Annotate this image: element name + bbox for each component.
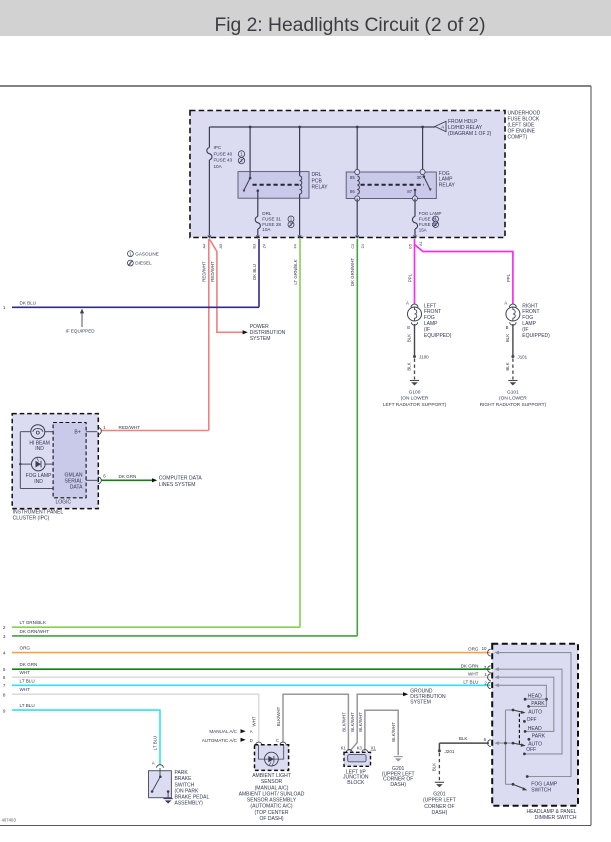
IPC pin 6 connector	[86, 479, 97, 481]
svg-text:10A: 10A	[214, 164, 223, 169]
svg-text:87: 87	[407, 189, 412, 194]
svg-text:MANUAL A/C: MANUAL A/C	[209, 729, 237, 734]
fuse F26/F25 (FOG LAMP)	[414, 190, 416, 196]
wire LT BLU (headlamp sw)	[12, 684, 491, 686]
svg-text:K1: K1	[341, 746, 347, 751]
svg-text:SYSTEM: SYSTEM	[250, 336, 271, 342]
svg-text:DASH): DASH)	[432, 810, 448, 816]
fog relay switch (pins 30/87)	[422, 127, 424, 174]
wire DK BLU	[258, 239, 260, 307]
contact dots and position labels	[524, 698, 527, 701]
svg-text:BLK/WHT: BLK/WHT	[350, 712, 355, 732]
indicator lamp: HI BEAM IND	[20, 431, 31, 433]
header title bar	[0, 0, 611, 36]
svg-text:RED/WHT: RED/WHT	[202, 261, 207, 282]
svg-text:PARK: PARK	[532, 734, 546, 740]
wire ORG	[12, 652, 491, 654]
svg-text:1: 1	[3, 305, 6, 310]
svg-text:GASOLINE: GASOLINE	[135, 251, 159, 256]
svg-text:WHT: WHT	[20, 670, 31, 675]
svg-text:RED/WHT: RED/WHT	[210, 261, 215, 282]
fog relay coil link (dashed)	[361, 184, 425, 186]
svg-text:9: 9	[3, 708, 6, 713]
wire RED/WHT #2 (to power distribution)	[209, 239, 242, 332]
wire RED/WHT #1 (to IPC)	[208, 239, 210, 431]
fuse block bottom exit arrows	[207, 235, 211, 238]
svg-text:AMBIENT LIGHT: AMBIENT LIGHT	[252, 773, 291, 779]
left I/P junction block box	[346, 750, 352, 753]
svg-text:SWITCH: SWITCH	[175, 782, 195, 788]
svg-text:1: 1	[484, 672, 487, 677]
svg-text:FUSE 40: FUSE 40	[214, 151, 233, 156]
svg-text:DASH): DASH)	[390, 782, 406, 788]
svg-text:EQUIPPED): EQUIPPED)	[424, 333, 452, 339]
svg-text:G201: G201	[433, 792, 446, 798]
svg-text:5: 5	[3, 667, 6, 672]
svg-text:(ON PARK: (ON PARK	[175, 788, 199, 794]
svg-text:SYSTEM: SYSTEM	[410, 700, 431, 706]
wire WHT (headlamp sw)	[12, 676, 491, 678]
svg-text:B: B	[506, 325, 509, 330]
svg-text:RELAY: RELAY	[312, 184, 329, 190]
svg-text:FOG LAMP: FOG LAMP	[531, 782, 558, 788]
svg-text:407403: 407403	[2, 818, 17, 823]
svg-text:DRL: DRL	[262, 211, 272, 216]
svg-text:AMBIENT LIGHT/ SUNLOAD: AMBIENT LIGHT/ SUNLOAD	[239, 791, 305, 797]
svg-text:FUSE 31: FUSE 31	[262, 216, 281, 221]
svg-text:86: 86	[350, 189, 355, 194]
switch internal wire from pin 6 (BLK)	[496, 742, 513, 744]
svg-text:CORNER OF: CORNER OF	[424, 804, 454, 810]
DRL relay coil link (dashed)	[253, 184, 300, 186]
svg-text:PPL: PPL	[506, 273, 511, 282]
svg-text:4: 4	[3, 650, 6, 655]
svg-text:BLK/WHT: BLK/WHT	[276, 706, 281, 726]
relay U1: DRL PCB RELAY (box)	[238, 172, 309, 199]
svg-text:LT BLU: LT BLU	[20, 703, 35, 708]
svg-text:LINES SYSTEM: LINES SYSTEM	[159, 482, 196, 488]
svg-text:10A: 10A	[262, 227, 271, 232]
svg-text:Fig 2: Headlights Circuit (2 o: Fig 2: Headlights Circuit (2 of 2)	[214, 15, 485, 36]
svg-text:ASSEMBLY): ASSEMBLY)	[175, 801, 204, 807]
svg-text:C2: C2	[351, 244, 355, 249]
svg-text:85: 85	[350, 175, 355, 180]
DRL relay coil	[299, 127, 301, 176]
svg-text:6: 6	[3, 675, 6, 680]
svg-text:LT BLU: LT BLU	[20, 678, 35, 683]
svg-text:DK BLU: DK BLU	[252, 264, 257, 280]
svg-text:WHT: WHT	[468, 672, 479, 677]
svg-text:BLK/WHT: BLK/WHT	[341, 712, 346, 732]
svg-text:PARK: PARK	[175, 770, 189, 776]
svg-text:LT BLU: LT BLU	[463, 680, 478, 685]
svg-text:AUTO: AUTO	[528, 709, 542, 715]
svg-text:SENSOR ASSEMBLY: SENSOR ASSEMBLY	[247, 798, 297, 804]
wire BLK below RIGHT lamp	[512, 324, 514, 357]
svg-text:A: A	[152, 761, 155, 766]
node J201	[438, 749, 441, 752]
svg-text:RED/WHT: RED/WHT	[119, 425, 141, 430]
wire BLK (headlamp switch ground)	[439, 742, 489, 744]
svg-text:DISTRIBUTION: DISTRIBUTION	[250, 330, 286, 336]
svg-text:A5: A5	[219, 244, 223, 249]
svg-text:30: 30	[417, 175, 422, 180]
logic inner box	[53, 423, 86, 498]
svg-text:IND: IND	[34, 479, 43, 485]
svg-text:10: 10	[482, 646, 487, 651]
node: bus junctions	[249, 126, 252, 129]
svg-text:DK GRN/WHT: DK GRN/WHT	[20, 629, 50, 634]
svg-text:DK GRN: DK GRN	[461, 664, 479, 669]
wire DK GRN	[12, 668, 491, 670]
svg-text:ORG: ORG	[20, 646, 31, 651]
IF EQUIPPED note	[81, 313, 83, 328]
svg-text:OFF: OFF	[526, 747, 536, 753]
svg-text:BRAKE: BRAKE	[175, 776, 193, 782]
arrow: COMPUTER DATA LINES SYSTEM	[152, 478, 157, 482]
switch internal wire from pin 1 (WHT) to HEAD	[496, 677, 554, 731]
svg-text:DK GRN: DK GRN	[20, 662, 38, 667]
wire: IPC internal left leg	[19, 432, 21, 489]
svg-text:LEFT RADIATOR SUPPORT): LEFT RADIATOR SUPPORT)	[383, 402, 447, 408]
sensor internal circuit	[259, 745, 284, 759]
svg-text:1: 1	[129, 251, 132, 256]
svg-text:C: C	[276, 738, 279, 743]
wire WHT (ambient sensor)	[12, 694, 259, 742]
svg-text:IF EQUIPPED: IF EQUIPPED	[66, 329, 96, 334]
svg-text:G101: G101	[507, 389, 519, 395]
svg-text:AUTOMATIC A/C: AUTOMATIC A/C	[202, 738, 238, 743]
svg-text:8: 8	[3, 692, 6, 697]
svg-text:G5: G5	[408, 244, 412, 249]
svg-text:J100: J100	[419, 354, 429, 359]
wire BLK/WHT (X1 to G201)	[365, 710, 398, 755]
svg-text:B3: B3	[253, 244, 257, 249]
svg-text:(UPPER LEFT: (UPPER LEFT	[423, 798, 456, 804]
svg-text:BLK: BLK	[407, 362, 412, 370]
svg-text:J201: J201	[445, 749, 455, 754]
instrument panel cluster IPC (dashed box)	[12, 414, 98, 509]
svg-text:F4: F4	[294, 244, 298, 248]
svg-text:B: B	[407, 325, 410, 330]
svg-text:IND: IND	[35, 446, 44, 452]
svg-text:A: A	[406, 300, 409, 305]
svg-text:A: A	[250, 729, 253, 734]
IPC pin 1 connector	[86, 431, 97, 433]
svg-text:EQUIPPED): EQUIPPED)	[522, 333, 550, 339]
wire: main feed bus inside fuse block	[209, 126, 435, 128]
svg-text:A: A	[441, 125, 444, 130]
svg-text:BLK: BLK	[407, 334, 412, 342]
svg-text:SENSOR: SENSOR	[261, 779, 283, 785]
svg-text:6: 6	[484, 737, 487, 742]
underhood fuse block (dashed box)	[190, 111, 505, 238]
svg-text:(ON LOWER: (ON LOWER	[499, 396, 527, 402]
wire PPL (fog lamp feed)	[414, 239, 416, 304]
svg-text:ORG: ORG	[468, 646, 479, 651]
svg-text:RELAY: RELAY	[439, 182, 456, 188]
node J100	[413, 355, 416, 358]
ground G201 (junction block)	[394, 756, 403, 758]
svg-text:LT BLU: LT BLU	[152, 736, 157, 750]
svg-text:COMPT): COMPT)	[508, 135, 528, 141]
svg-text:DK GRN: DK GRN	[119, 474, 137, 479]
svg-text:IPC: IPC	[214, 145, 222, 150]
svg-text:BLK: BLK	[431, 763, 436, 771]
svg-text:FUSE 28: FUSE 28	[262, 222, 281, 227]
fog relay coil (pins 85/86)	[356, 127, 358, 174]
svg-text:(MANUAL A/C): (MANUAL A/C)	[255, 785, 289, 791]
indicator LED: FOG LAMP IND	[45, 463, 53, 465]
svg-text:WHT: WHT	[252, 716, 257, 726]
svg-text:1: 1	[103, 425, 106, 430]
arrow: POWER DISTRIBUTION SYSTEM	[243, 330, 248, 334]
legend: gasoline / diesel	[127, 251, 133, 257]
node J101	[511, 355, 514, 358]
svg-text:D: D	[250, 738, 253, 743]
svg-text:BLK: BLK	[459, 736, 469, 741]
svg-text:BLK/WHT: BLK/WHT	[358, 712, 363, 732]
svg-text:Z4: Z4	[361, 244, 365, 248]
park brake switch contacts	[159, 768, 161, 777]
switch internal wire from pin 3 (DK GRN) to OFF	[496, 669, 562, 754]
svg-text:G100: G100	[409, 389, 421, 395]
svg-text:BLK: BLK	[505, 362, 510, 370]
svg-text:RIGHT RADIATOR SUPPORT): RIGHT RADIATOR SUPPORT)	[480, 402, 547, 408]
svg-text:15A: 15A	[419, 227, 427, 232]
headlamp and panel dimmer switch (dashed box)	[492, 644, 578, 806]
svg-text:A1: A1	[419, 241, 423, 246]
svg-text:FOG LAMP: FOG LAMP	[419, 211, 442, 216]
svg-text:FUSE 43: FUSE 43	[214, 158, 233, 163]
fog lamp switch	[526, 775, 529, 778]
svg-text:DK BLU: DK BLU	[20, 300, 37, 305]
svg-text:DIMMER SWITCH: DIMMER SWITCH	[535, 815, 577, 821]
wiper 2 (AUTO)	[512, 742, 515, 745]
svg-text:J101: J101	[518, 354, 528, 359]
wire BLK dashed to G100	[414, 359, 416, 380]
svg-text:BRAKE PEDAL: BRAKE PEDAL	[175, 795, 210, 801]
svg-text:DK GRN/WHT: DK GRN/WHT	[350, 258, 355, 287]
svg-text:(DIAGRAM 1 OF 2): (DIAGRAM 1 OF 2)	[448, 131, 492, 137]
svg-text:LOGIC: LOGIC	[56, 499, 72, 505]
svg-text:BLK/WHT: BLK/WHT	[391, 722, 396, 742]
wire BLK below LEFT lamp	[414, 324, 416, 357]
svg-text:A: A	[504, 300, 507, 305]
svg-text:OFF: OFF	[527, 717, 537, 723]
svg-text:WHT: WHT	[20, 687, 31, 692]
svg-text:3: 3	[3, 634, 6, 639]
lamp: LEFT front fog lamp	[411, 304, 418, 307]
svg-text:DIESEL: DIESEL	[135, 261, 152, 266]
lamp: RIGHT front fog lamp	[510, 304, 517, 307]
svg-text:(AUTOMATIC A/C): (AUTOMATIC A/C)	[250, 804, 292, 810]
wire DK GRN/WHT	[356, 239, 358, 636]
svg-text:A4: A4	[202, 244, 206, 249]
svg-text:K3: K3	[357, 746, 363, 751]
svg-text:(ON LOWER: (ON LOWER	[401, 396, 429, 402]
svg-text:Z4: Z4	[263, 244, 267, 248]
DRL relay switch	[249, 127, 251, 178]
svg-text:PARK: PARK	[531, 701, 545, 707]
switch internal wire from pin 2 (LT BLU) to HEAD/PARK	[496, 685, 546, 706]
wiper 1 (AUTO)	[512, 709, 515, 712]
ground (park brake)	[164, 798, 173, 800]
diagram frame border	[0, 85, 591, 87]
ground G100	[410, 380, 419, 382]
ground G201 (second)	[435, 781, 444, 783]
svg-text:HEAD: HEAD	[528, 693, 542, 699]
svg-text:B+: B+	[74, 430, 80, 436]
wire BLK/WHT (sensor to junction block)	[283, 694, 348, 750]
wire BLK dashed to G201	[438, 753, 440, 781]
svg-text:SWITCH: SWITCH	[531, 788, 551, 794]
svg-text:LT GRN/BLK: LT GRN/BLK	[20, 620, 47, 625]
fuse F40/F43 (IPC)	[208, 127, 210, 148]
relay K2: FOG LAMP RELAY (box)	[346, 172, 436, 199]
connector triangle A: FROM HDLP LO/HID RELAY	[435, 121, 446, 131]
switch internal wire from pin 10 (ORG) to fog switch	[496, 653, 571, 777]
svg-text:6: 6	[103, 474, 106, 479]
ground G101	[508, 380, 517, 382]
mechanical link (dashed)	[518, 714, 520, 745]
svg-text:HEADLAMP & PANEL: HEADLAMP & PANEL	[526, 809, 576, 815]
svg-text:COMPUTER DATA: COMPUTER DATA	[159, 476, 203, 482]
wire DK GRN (serial data)	[101, 479, 152, 481]
svg-text:HEAD: HEAD	[528, 726, 542, 732]
svg-text:CLUSTER (IPC): CLUSTER (IPC)	[13, 516, 50, 522]
svg-text:(TOP CENTER: (TOP CENTER	[254, 810, 288, 816]
wire BLK dashed to G101	[512, 359, 514, 380]
ambient light sensor box	[256, 742, 262, 745]
svg-text:2: 2	[3, 625, 6, 630]
switch pin connectors	[488, 649, 491, 656]
wire: ground distribution system branch	[350, 694, 403, 751]
svg-text:POWER: POWER	[250, 324, 269, 330]
wire LT BLU (park brake)	[12, 710, 160, 765]
svg-text:OF DASH): OF DASH)	[259, 816, 283, 822]
switch common vertical	[505, 710, 507, 784]
svg-text:INSTRUMENT PANEL: INSTRUMENT PANEL	[13, 509, 64, 515]
svg-text:PPL: PPL	[408, 273, 413, 282]
svg-text:7: 7	[3, 683, 6, 688]
svg-text:DATA: DATA	[70, 485, 83, 491]
svg-text:BLK: BLK	[505, 334, 510, 342]
svg-text:X1: X1	[371, 746, 377, 751]
svg-text:BLOCK: BLOCK	[347, 780, 365, 786]
fuse F31/F28 (DRL)	[257, 191, 259, 217]
svg-text:LT GRN/BLK: LT GRN/BLK	[293, 259, 298, 284]
wire LT GRN/BLK	[299, 239, 301, 627]
